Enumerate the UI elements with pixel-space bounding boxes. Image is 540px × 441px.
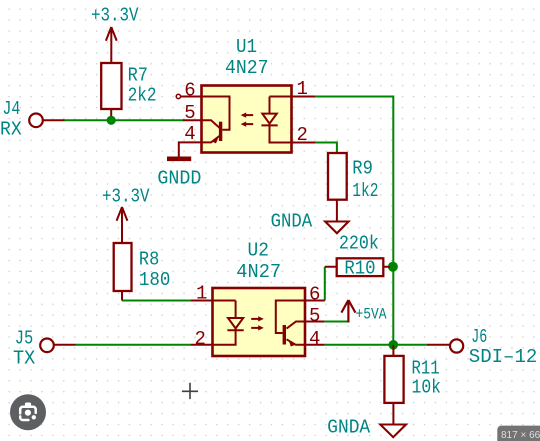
junction at R11 top	[389, 340, 399, 350]
U1 pin 5	[183, 102, 202, 124]
svg-text:2k2: 2k2	[128, 85, 157, 107]
wire U2 pin6 to R10	[324, 267, 326, 301]
svg-text:J4: J4	[2, 98, 20, 120]
resistor R11	[384, 345, 441, 424]
ground GNDD	[157, 157, 201, 190]
wire U2 pin4 to J6	[324, 344, 427, 346]
U1 pin 1	[292, 78, 316, 100]
resistor R8	[114, 243, 171, 301]
svg-text:J6: J6	[471, 326, 487, 348]
connector J4	[0, 98, 65, 140]
U2 LED	[213, 301, 244, 345]
image dimensions overlay 817x663	[497, 426, 540, 441]
svg-text:4N27: 4N27	[225, 57, 269, 79]
svg-text:GNDA: GNDA	[271, 211, 313, 233]
svg-text:+3.3V: +3.3V	[102, 186, 150, 208]
svg-text:6: 6	[184, 80, 195, 102]
wire U1 pin2 to R9	[315, 143, 337, 154]
svg-text:5: 5	[184, 102, 195, 124]
svg-text:SDI–12: SDI–12	[469, 346, 538, 368]
svg-text:1k2: 1k2	[352, 180, 378, 202]
U2 pin 6	[305, 283, 325, 305]
svg-text:+5VA: +5VA	[356, 306, 387, 324]
junction on J4 wire	[107, 116, 116, 125]
svg-text:R7: R7	[128, 64, 148, 86]
svg-text:J5: J5	[15, 328, 34, 350]
svg-text:TX: TX	[13, 348, 36, 370]
U2 pin 1	[191, 282, 213, 304]
svg-text:+3.3V: +3.3V	[91, 4, 139, 26]
svg-text:1: 1	[297, 78, 308, 100]
svg-text:U1: U1	[236, 36, 257, 58]
svg-text:4: 4	[309, 328, 320, 350]
U1 phototransistor	[202, 97, 230, 143]
wire U1 pin1 to right vertical bus	[315, 97, 393, 345]
op-toisolator U1 body	[202, 36, 292, 153]
U1 pin 2	[292, 124, 316, 146]
connector J5	[13, 328, 76, 370]
svg-text:180: 180	[139, 269, 171, 291]
resistor R9	[328, 153, 379, 221]
svg-text:5: 5	[309, 305, 320, 327]
U2 pin 4	[305, 328, 324, 350]
resistor R10	[325, 232, 390, 279]
svg-text:817 × 663: 817 × 663	[501, 430, 540, 441]
power +3.3V symbol (left top)	[106, 27, 117, 63]
svg-text:1: 1	[196, 282, 207, 304]
wire J5 to U2 pin2	[76, 344, 191, 346]
svg-text:2: 2	[297, 124, 308, 146]
resistor R7	[101, 63, 156, 116]
U1 pin 4	[179, 123, 202, 157]
connector J6	[427, 326, 537, 368]
wire U2 pin5 to +5VA	[324, 321, 348, 323]
svg-text:R9: R9	[352, 158, 373, 180]
power +3.3V symbol (for R8)	[117, 207, 128, 243]
svg-text:U2: U2	[248, 240, 269, 262]
svg-text:RX: RX	[0, 118, 22, 140]
U2 pin 2	[191, 328, 213, 350]
ground GNDA (top, under R9)	[271, 211, 349, 234]
wire J4 to U1 pin5	[65, 119, 185, 121]
svg-text:220k: 220k	[339, 232, 379, 254]
U1 LED	[261, 97, 291, 143]
svg-text:4: 4	[184, 123, 195, 145]
U1 pin 6	[176, 80, 201, 102]
origin cross marker	[182, 383, 198, 399]
svg-text:4N27: 4N27	[236, 261, 281, 283]
wire R8 to U2 pin1	[122, 300, 191, 302]
svg-text:R8: R8	[139, 248, 159, 270]
U1 coupling arrows	[241, 113, 254, 127]
svg-text:10k: 10k	[412, 377, 442, 399]
U2 pin 5	[305, 305, 324, 327]
U2 coupling arrows	[251, 316, 264, 330]
svg-text:GNDA: GNDA	[327, 417, 370, 439]
power +5VA	[341, 300, 386, 324]
ground GNDA (bottom, under R11)	[327, 417, 406, 439]
svg-text:2: 2	[195, 328, 206, 350]
U2 phototransistor	[276, 301, 305, 345]
svg-text:6: 6	[309, 283, 320, 305]
op-toisolator U2 body	[213, 240, 306, 357]
svg-text:GNDD: GNDD	[157, 168, 201, 190]
junction at R10 right	[388, 262, 398, 272]
svg-text:R10: R10	[344, 257, 375, 279]
Google Lens button	[10, 394, 46, 430]
